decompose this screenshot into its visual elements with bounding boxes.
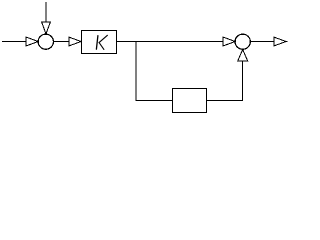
wire: summing junction 1 to K block [54,41,70,43]
arrowhead: into summing junction 2 [223,37,235,46]
wire: left input [2,41,27,43]
block K [81,31,116,54]
wire: K block output to summing junction 2 [116,41,224,43]
summing junction circle 1 [38,34,53,49]
arrowhead: feedback up into summing junction 2 [238,50,248,62]
wire: output of summing junction 2 [251,41,288,43]
arrowhead: top input into summing junction 1 [42,22,51,34]
arrowhead: into K block [69,37,81,46]
feedback block (empty) [172,89,206,113]
summing junction circle 2 [235,34,250,49]
arrowhead: left input into summing junction 1 [26,37,38,46]
arrowhead: final output [274,37,286,46]
wire: top input into summing junction 1 [45,2,47,23]
wire: feedback branch down from node to feedback block [136,42,173,101]
wire: feedback block to summing junction 2 [206,61,242,101]
label K (italic), drawn as strokes [96,35,107,49]
